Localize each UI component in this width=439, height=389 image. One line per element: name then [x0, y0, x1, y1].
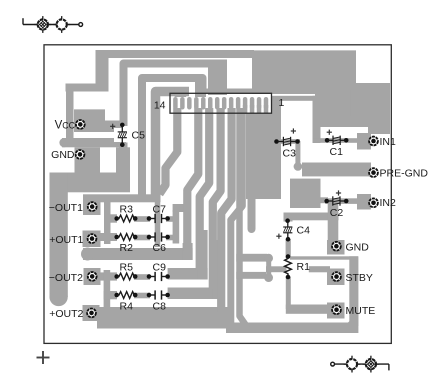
- svg-text:GND: GND: [51, 149, 75, 161]
- svg-text:C9: C9: [153, 262, 167, 274]
- svg-text:C3: C3: [283, 148, 297, 160]
- svg-text:14: 14: [154, 100, 166, 112]
- svg-text:GND: GND: [346, 242, 370, 254]
- svg-text:C4: C4: [297, 225, 311, 237]
- svg-text:C7: C7: [153, 204, 167, 216]
- svg-text:+OUT2: +OUT2: [49, 308, 83, 320]
- svg-text:MUTE: MUTE: [346, 305, 376, 317]
- svg-text:C1: C1: [330, 146, 344, 158]
- svg-text:1: 1: [279, 97, 285, 109]
- svg-text:C6: C6: [153, 242, 167, 254]
- svg-text:R1: R1: [297, 261, 311, 273]
- svg-text:+OUT1: +OUT1: [49, 234, 83, 246]
- svg-text:VCC: VCC: [55, 120, 76, 132]
- svg-text:IN2: IN2: [380, 197, 397, 209]
- svg-text:IN1: IN1: [380, 136, 397, 148]
- svg-text:R3: R3: [120, 204, 134, 216]
- svg-text:−OUT1: −OUT1: [49, 202, 83, 214]
- svg-text:STBY: STBY: [346, 272, 373, 284]
- svg-text:−OUT2: −OUT2: [49, 272, 83, 284]
- svg-text:R2: R2: [120, 242, 134, 254]
- svg-text:R5: R5: [120, 262, 134, 274]
- svg-text:R4: R4: [120, 300, 134, 312]
- svg-text:C8: C8: [153, 300, 167, 312]
- svg-text:C5: C5: [132, 130, 146, 142]
- svg-text:PRE-GND: PRE-GND: [380, 168, 429, 180]
- svg-text:C2: C2: [330, 207, 344, 219]
